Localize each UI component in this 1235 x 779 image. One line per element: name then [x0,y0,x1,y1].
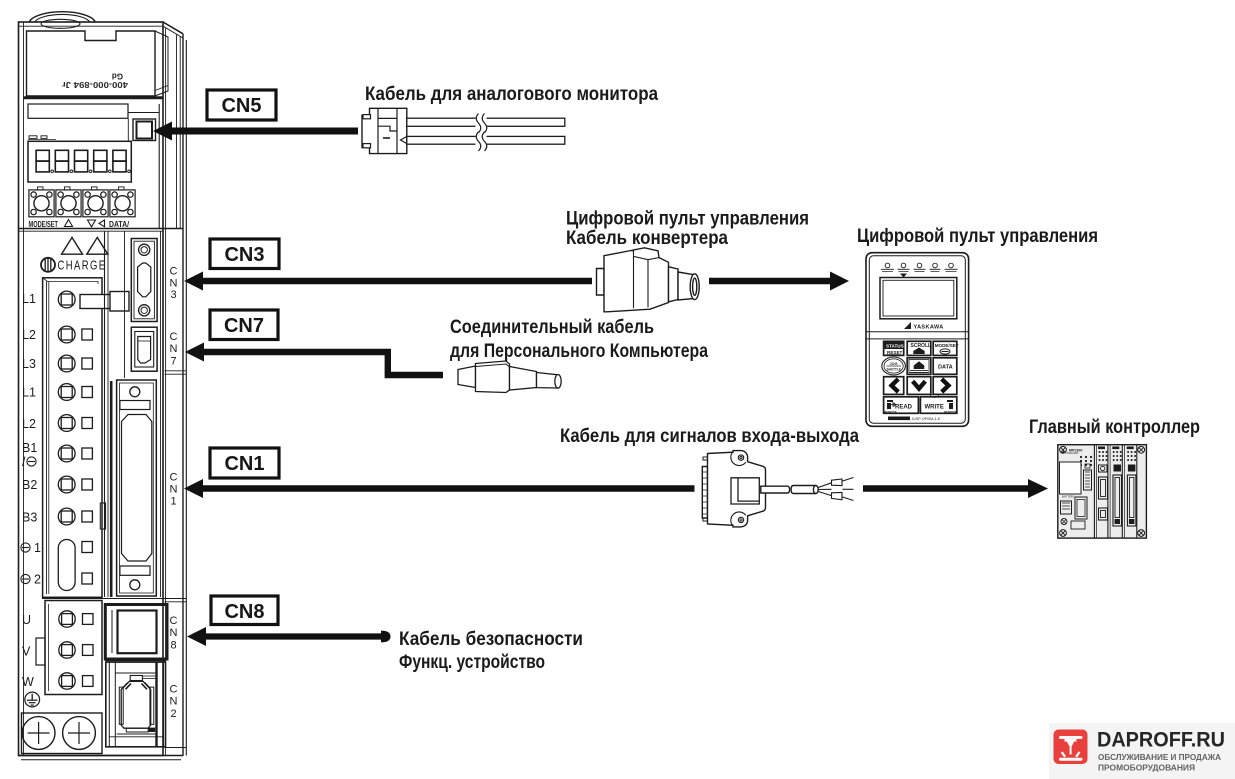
svg-text:DATA: DATA [938,365,953,371]
CN2 connector on drive [105,658,166,747]
forked wire ends [818,478,853,501]
svg-text:L3: L3 [22,357,36,371]
svg-text:ОБСЛУЖИВАНИЕ И ПРОДАЖА: ОБСЛУЖИВАНИЕ И ПРОДАЖА [1098,753,1221,762]
svg-text:B2: B2 [22,478,37,492]
thick band below panel [24,96,164,99]
wire arrow CN1 (to drive) [184,479,695,498]
rack corner screw top-left [1060,446,1067,453]
enclosure inner left border [23,22,25,756]
svg-text:CN7: CN7 [224,315,264,337]
rack corner screw top-right [1138,446,1145,453]
svg-text:REMOTE: REMOTE [884,410,897,414]
WRITE key [920,397,956,414]
svg-text:READ: READ [895,404,913,410]
I/O module 4 [1127,447,1136,527]
circled-minus glyphs for terminal labels [21,457,36,584]
operator LED indicator row [881,263,958,277]
button labels row [29,220,130,229]
CN7 connector on drive [131,327,157,371]
svg-text:MODE/SET: MODE/SET [935,343,959,348]
wire arrow CN8 [187,627,391,646]
svg-text:Кабель для сигналов входа-выхо: Кабель для сигналов входа-выхода [560,425,859,447]
panel mirrored part number text [61,80,128,90]
small marks above display [29,136,37,139]
svg-text:1: 1 [170,496,176,508]
analog monitor cable connector body [362,108,407,153]
daproff logo background [1049,723,1235,779]
enclosure right side face [163,22,186,756]
nameplate rectangle [28,104,128,118]
charge indicator symbol [41,258,107,273]
yaskawa logo on operator [904,322,911,329]
terminal name labels [22,292,41,689]
main controller rack body [1058,445,1147,538]
svg-text:2: 2 [34,573,41,587]
bottom mounting screw panel [22,713,103,754]
svg-text:YASKAWA: YASKAWA [914,325,944,331]
vertical CN8 label on side face [170,615,178,652]
connector callout CN3 [210,239,279,269]
vertical CN3 label on side face [170,266,178,302]
svg-text:WRITE: WRITE [925,404,944,410]
operator push buttons row [29,187,135,217]
top label panel with notch [27,31,156,96]
warning triangles [62,237,83,254]
enclosure top inner line [19,25,164,27]
READ key [884,397,919,414]
svg-text:C: C [170,472,178,484]
svg-text:STATUS: STATUS [886,344,904,349]
svg-text:W: W [22,675,34,689]
MODE/SET key [933,341,957,355]
right column line of upper section [158,104,160,229]
wire break marks on wire 1 [476,114,487,133]
svg-text:3: 3 [170,289,176,301]
svg-text:2: 2 [170,708,176,720]
svg-text:Кабель для аналогового монитор: Кабель для аналогового монитора [365,83,658,105]
svg-text:B3: B3 [22,511,37,525]
rack corner screw bottom-left [1060,530,1067,537]
charge jumper bar on L1 [80,295,113,309]
analog monitor wire 1 [407,118,565,126]
up arrow key [907,358,931,375]
CPU module faceplate [1060,449,1093,530]
module separator lines [1093,445,1095,538]
svg-text:B1: B1 [22,441,37,455]
connector callout CN8 [211,596,278,625]
vertical CN7 label on side face [170,331,178,368]
operator LCD display [880,278,957,319]
servo amplifier enclosure front face [19,22,164,756]
vertical CN1 label on side face [170,472,178,508]
svg-text:для Персонального Компьютера: для Персонального Компьютера [450,340,708,362]
ground symbol [25,692,40,707]
svg-text:MODE/SET: MODE/SET [29,220,59,229]
svg-text:400-000-894 Jr: 400-000-894 Jr [61,80,128,90]
wire arrow CN3 left segment (to drive) [184,272,592,291]
vertical CN2 label on side face [170,684,178,721]
svg-text:C: C [170,615,178,627]
PC connection cable connector (CN7) [458,361,561,393]
svg-text:BATTERY: BATTERY [1062,495,1075,499]
svg-text:Главный контроллер: Главный контроллер [1029,417,1200,438]
svg-text:C: C [170,266,178,278]
svg-text:YASKAWA: YASKAWA [1065,451,1079,455]
svg-text:8: 8 [170,640,176,652]
svg-text:N: N [170,278,178,290]
svg-text:L1: L1 [22,292,36,306]
svg-text:L2: L2 [22,328,36,342]
SCROLL key [907,341,931,355]
svg-text:CN3: CN3 [224,244,264,266]
analog monitor connector details [363,108,407,153]
I/O signal cable connector (CN1) [702,451,853,527]
svg-text:N: N [170,627,178,639]
wire break marks on wire 2 [476,132,487,151]
svg-text:U: U [22,613,31,627]
svg-text:CN8: CN8 [224,601,264,623]
left arrow key [884,377,904,395]
svg-text:SHUTTLE: SHUTTLE [887,368,902,372]
wire arrow CN7 with elbow [185,343,443,379]
carrying handle arcs [29,12,96,23]
svg-text:DATA/: DATA/ [109,220,130,229]
wire arrow CN1 to main controller [863,479,1048,498]
svg-text:ПРОМОБОРУДОВАНИЯ: ПРОМОБОРУДОВАНИЯ [1098,764,1195,773]
down arrow key [907,377,931,395]
main terminal block [43,278,102,598]
mounting screw left [22,717,55,750]
analog monitor wire 2 [407,136,565,144]
mounting screw right [63,717,96,750]
svg-text:Gd: Gd [112,72,123,81]
svg-text:C: C [170,684,178,696]
digital operator body [866,253,969,427]
connector callout CN5 [207,90,276,120]
terminal screws column [58,291,75,590]
svg-text:N: N [170,343,178,355]
rack corner screw bottom-right [1138,530,1145,537]
svg-text:CHARGE: CHARGE [58,258,107,273]
CN8 connector on drive [105,605,167,660]
operator bottom label text [888,417,910,421]
DATA key [933,358,957,375]
daproff red icon [1054,730,1088,765]
svg-text:N: N [170,484,178,496]
wire arrow CN3 right segment (to digital operator) [709,272,849,291]
svg-text:V: V [22,645,31,659]
svg-text:CN1: CN1 [224,453,264,475]
svg-text:REMOTE: REMOTE [944,410,957,414]
enclosure bottom lines [19,755,184,757]
I/O module 2 [1098,447,1108,521]
svg-text:Кабель конвертера: Кабель конвертера [566,227,728,249]
svg-text:CN5: CN5 [221,95,261,117]
CN3 connector on drive [131,239,157,322]
seven-segment digits [36,150,130,172]
svg-text:Кабель безопасности: Кабель безопасности [399,628,583,650]
U V W terminal block [45,601,102,695]
svg-text:C: C [170,331,178,343]
svg-text:N: N [170,696,178,708]
converter cable connector (CN3) [597,248,700,312]
svg-text:L2: L2 [22,417,36,431]
svg-text:7: 7 [170,356,176,368]
svg-text:RESET: RESET [887,350,903,355]
connector callout CN1 [210,448,279,478]
connector callout CN7 [210,310,278,340]
svg-text:DAPROFF.RU: DAPROFF.RU [1097,728,1225,752]
svg-text:Соединительный кабель: Соединительный кабель [450,316,654,338]
svg-text:Цифровой пульт управления: Цифровой пульт управления [857,225,1098,247]
middle column separators [104,231,106,597]
CN5 connector on drive [133,119,156,141]
svg-text:SCROLL: SCROLL [911,343,932,349]
section divider [19,228,184,230]
horizontal joint line between sections [42,598,167,600]
STATUS/RESET key [884,341,904,355]
JOG/SHUTTLE key [882,357,906,375]
svg-text:JOG: JOG [890,362,898,366]
seven-segment display panel [28,141,131,182]
svg-text:L1: L1 [22,386,36,400]
terminal side squares [82,329,93,584]
svg-text:JUSP-OP05A-1-E: JUSP-OP05A-1-E [912,417,941,421]
operator keypad buttons [882,341,959,414]
svg-text:Функц. устройство: Функц. устройство [399,651,545,673]
svg-text:/: / [22,455,26,469]
right arrow key [933,377,957,395]
CN1 connector on drive [100,380,156,597]
I/O module 3 [1112,447,1121,527]
svg-text:1: 1 [34,541,41,555]
wire arrow to CN5 [153,122,358,141]
operator separator lines [866,331,969,333]
